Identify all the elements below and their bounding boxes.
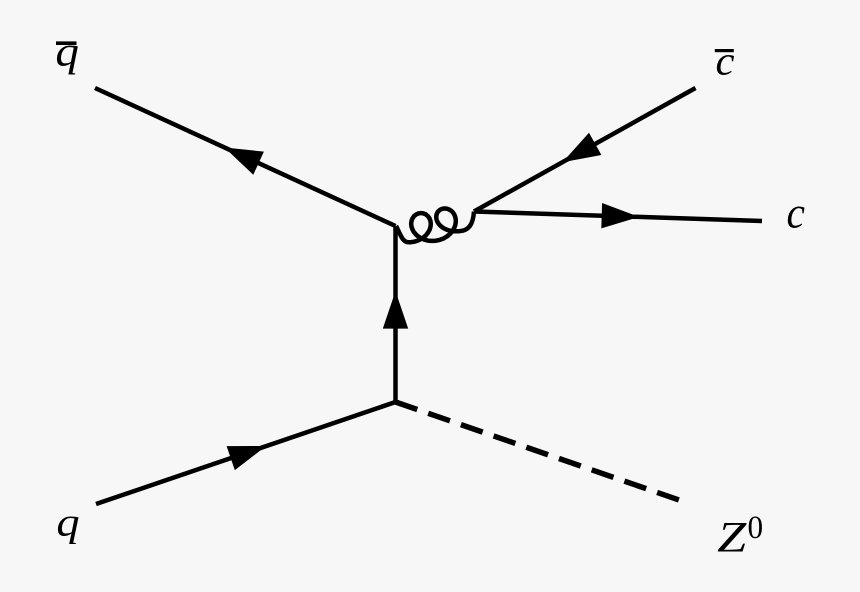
label q: [56, 500, 79, 545]
internal quark propagator: [393, 226, 398, 402]
Z boson dashed line: [396, 402, 680, 500]
arrow on q line: [227, 446, 267, 470]
charm line c: [474, 212, 762, 222]
arrow on cbar line: [563, 133, 602, 162]
label Z0: [717, 508, 763, 561]
svg-text:q: q: [55, 28, 79, 75]
svg-text:q: q: [56, 500, 79, 545]
gluon curly line: [396, 209, 474, 243]
label qbar: [55, 28, 79, 75]
svg-text:Z: Z: [717, 514, 747, 562]
svg-text:c: c: [716, 39, 735, 84]
label c: [787, 189, 805, 238]
svg-text:0: 0: [748, 508, 764, 545]
antiquark line qbar: [95, 88, 396, 226]
anticharm line cbar: [474, 88, 696, 212]
arrow on internal propagator: [383, 291, 408, 329]
quark line q: [96, 402, 396, 504]
arrow on qbar line: [225, 148, 264, 175]
svg-text:c: c: [787, 189, 805, 238]
arrow on c line: [601, 203, 639, 228]
label cbar: [715, 39, 735, 84]
